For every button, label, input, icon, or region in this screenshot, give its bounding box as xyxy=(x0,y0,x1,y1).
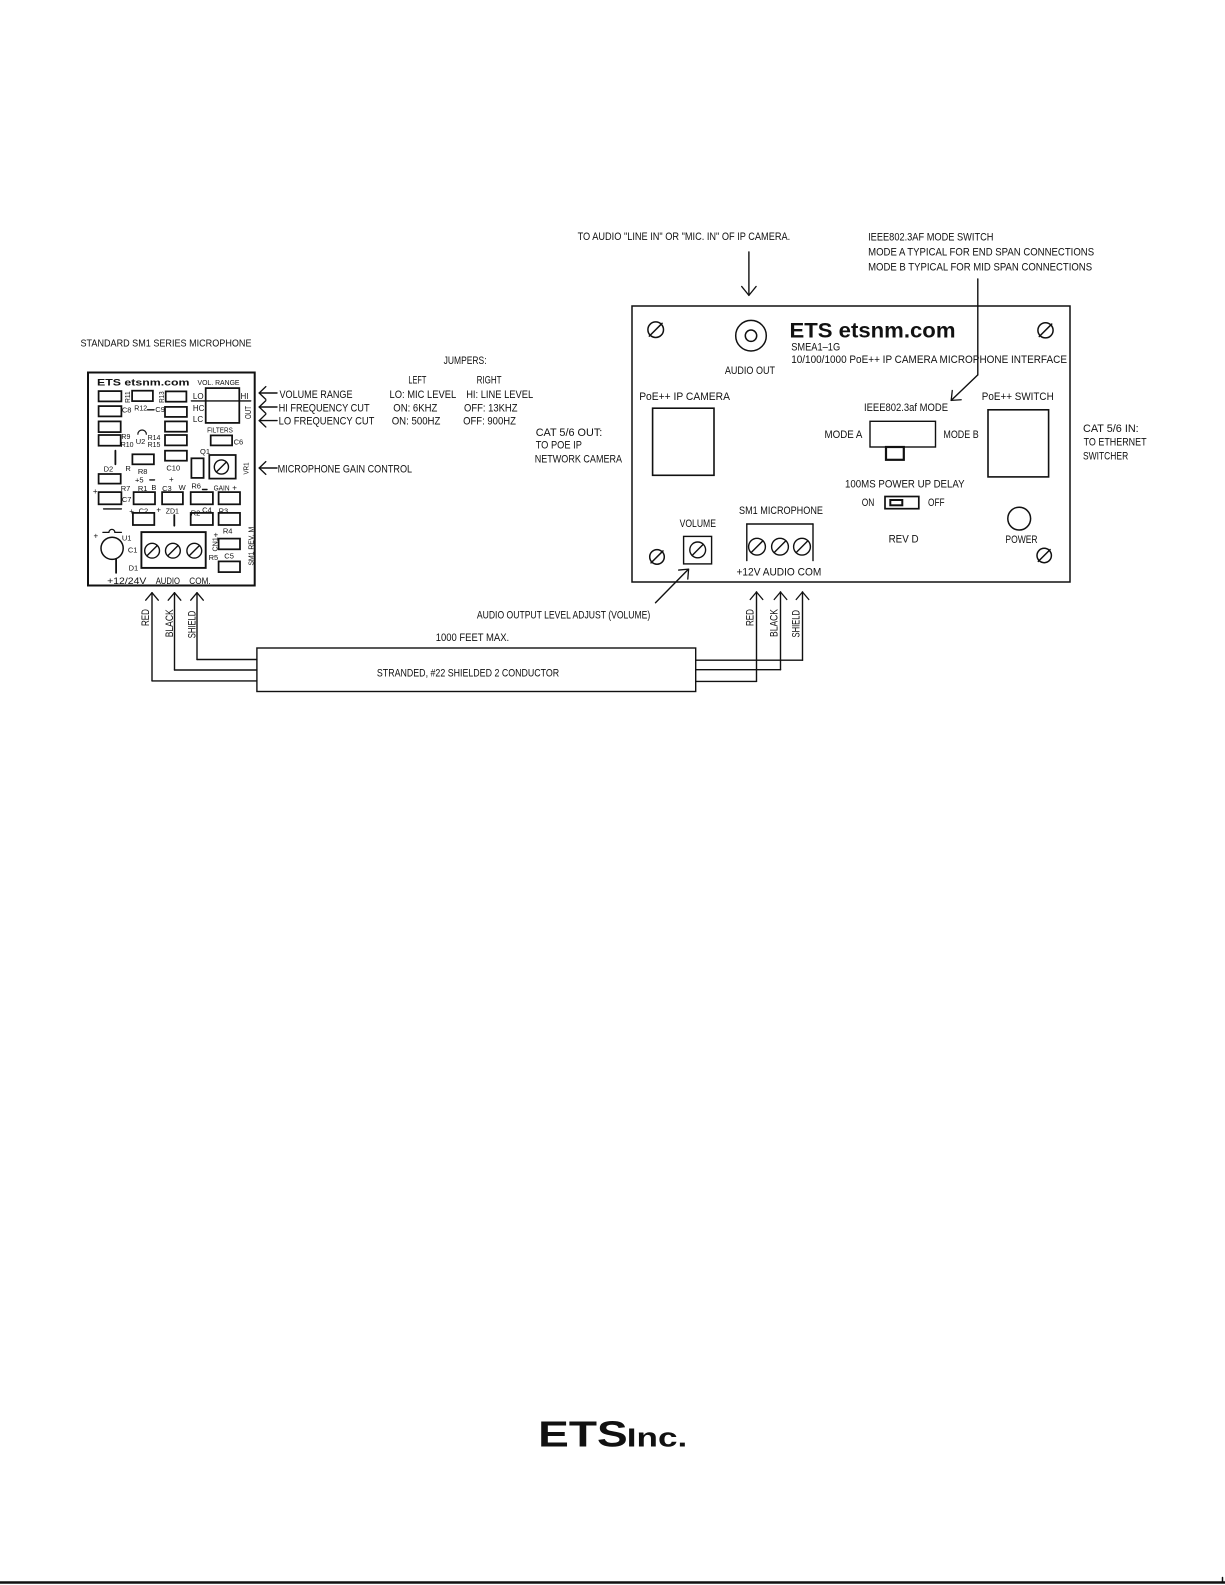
svg-text:ETS etsnm.com: ETS etsnm.com xyxy=(97,378,190,389)
svg-text:POWER: POWER xyxy=(1005,534,1037,546)
svg-text:RED: RED xyxy=(140,609,152,626)
svg-text:AUDIO OUTPUT LEVEL ADJUST (VOL: AUDIO OUTPUT LEVEL ADJUST (VOLUME) xyxy=(477,610,650,622)
svg-text:R9: R9 xyxy=(121,434,130,441)
svg-text:OUT: OUT xyxy=(244,406,253,419)
svg-text:C8: C8 xyxy=(122,406,132,415)
svg-text:TO POE IP: TO POE IP xyxy=(536,440,582,452)
svg-text:HI: LINE LEVEL: HI: LINE LEVEL xyxy=(466,389,533,401)
svg-text:R15: R15 xyxy=(148,442,161,449)
svg-text:MODE A: MODE A xyxy=(825,429,863,441)
svg-text:R5: R5 xyxy=(209,553,219,562)
svg-text:NETWORK CAMERA: NETWORK CAMERA xyxy=(535,454,623,466)
svg-text:RIGHT: RIGHT xyxy=(477,375,502,387)
svg-text:OFF: 13KHZ: OFF: 13KHZ xyxy=(464,402,518,414)
svg-text:REV D: REV D xyxy=(889,533,919,545)
svg-text:C3: C3 xyxy=(162,484,172,493)
svg-text:R: R xyxy=(125,464,131,473)
svg-text:FILTERS: FILTERS xyxy=(207,426,233,435)
svg-text:AUDIO: AUDIO xyxy=(156,576,180,587)
svg-text:C6: C6 xyxy=(234,438,244,447)
svg-text:HI: HI xyxy=(241,392,249,401)
svg-text:100MS POWER UP DELAY: 100MS POWER UP DELAY xyxy=(845,478,965,490)
svg-text:OFF: 900HZ: OFF: 900HZ xyxy=(463,416,516,428)
svg-text:Inc.: Inc. xyxy=(627,1425,688,1453)
svg-text:RED: RED xyxy=(745,609,757,626)
svg-text:ON: 6KHZ: ON: 6KHZ xyxy=(393,402,437,414)
svg-text:HI FREQUENCY CUT: HI FREQUENCY CUT xyxy=(279,402,370,414)
svg-text:BLACK: BLACK xyxy=(769,608,781,637)
svg-text:CAT 5/6 OUT:: CAT 5/6 OUT: xyxy=(536,427,603,439)
svg-text:SMEA1–1G: SMEA1–1G xyxy=(791,342,840,354)
svg-text:ETS etsnm.com: ETS etsnm.com xyxy=(790,320,956,343)
svg-text:+12/24V: +12/24V xyxy=(107,576,147,587)
svg-text:R6: R6 xyxy=(191,481,201,490)
svg-text:VOL. RANGE: VOL. RANGE xyxy=(198,380,240,387)
svg-text:R2: R2 xyxy=(191,509,201,518)
svg-text:LO: LO xyxy=(193,392,204,401)
svg-text:C4: C4 xyxy=(202,506,212,515)
svg-text:R10: R10 xyxy=(121,442,134,449)
svg-text:+12V AUDIO COM: +12V AUDIO COM xyxy=(737,566,822,578)
svg-text:LO FREQUENCY CUT: LO FREQUENCY CUT xyxy=(279,416,375,428)
svg-text:HC: HC xyxy=(193,404,205,413)
svg-text:ON: 500HZ: ON: 500HZ xyxy=(392,416,441,428)
svg-text:SWITCHER: SWITCHER xyxy=(1083,450,1128,462)
svg-text:ETS: ETS xyxy=(538,1413,628,1454)
svg-text:ZD1: ZD1 xyxy=(166,509,179,516)
svg-text:D1: D1 xyxy=(129,564,139,573)
svg-text:C2: C2 xyxy=(139,507,149,516)
svg-text:MICROPHONE GAIN CONTROL: MICROPHONE GAIN CONTROL xyxy=(278,463,413,475)
svg-text:OFF: OFF xyxy=(928,497,945,509)
svg-text:LC: LC xyxy=(193,415,203,424)
svg-text:MODE B TYPICAL FOR MID SPAN CO: MODE B TYPICAL FOR MID SPAN CONNECTIONS xyxy=(868,262,1092,274)
svg-text:+: + xyxy=(129,507,134,516)
svg-text:STANDARD SM1 SERIES MICROPHONE: STANDARD SM1 SERIES MICROPHONE xyxy=(81,338,252,350)
svg-text:W: W xyxy=(179,483,187,492)
svg-text:B: B xyxy=(151,483,156,492)
svg-text:1000 FEET MAX.: 1000 FEET MAX. xyxy=(436,632,510,644)
svg-text:LO: MIC LEVEL: LO: MIC LEVEL xyxy=(390,389,457,401)
svg-text:R4: R4 xyxy=(223,526,233,535)
svg-text:U1: U1 xyxy=(122,534,132,543)
svg-text:CAT 5/6 IN:: CAT 5/6 IN: xyxy=(1083,423,1139,435)
svg-text:VOLUME RANGE: VOLUME RANGE xyxy=(280,389,353,401)
svg-text:GAIN: GAIN xyxy=(214,483,230,492)
svg-text:AUDIO OUT: AUDIO OUT xyxy=(725,365,775,377)
svg-text:SHIELD: SHIELD xyxy=(187,611,199,639)
svg-text:C10: C10 xyxy=(166,464,180,473)
svg-text:MODE B: MODE B xyxy=(943,429,978,441)
svg-text:+: + xyxy=(94,531,99,540)
svg-text:+: + xyxy=(93,487,98,496)
svg-text:ON: ON xyxy=(862,497,875,509)
svg-text:JUMPERS:: JUMPERS: xyxy=(444,355,487,367)
svg-text:SM1 REV. M: SM1 REV. M xyxy=(246,527,255,566)
svg-text:SHIELD: SHIELD xyxy=(791,610,803,638)
svg-text:R3: R3 xyxy=(219,506,229,515)
svg-text:TO AUDIO "LINE IN" OR "MIC. IN: TO AUDIO "LINE IN" OR "MIC. IN" OF IP CA… xyxy=(578,231,791,243)
svg-text:R12: R12 xyxy=(134,406,147,413)
svg-text:PoE++ IP CAMERA: PoE++ IP CAMERA xyxy=(639,391,730,403)
svg-text:U2: U2 xyxy=(136,437,146,446)
svg-text:R8: R8 xyxy=(138,467,148,476)
svg-text:VOLUME: VOLUME xyxy=(680,518,716,530)
svg-text:C9: C9 xyxy=(155,405,165,414)
svg-text:MODE A TYPICAL FOR END SPAN CO: MODE A TYPICAL FOR END SPAN CONNECTIONS xyxy=(868,247,1094,259)
svg-text:R13: R13 xyxy=(159,391,166,403)
svg-text:D2: D2 xyxy=(104,465,114,474)
svg-text:+: + xyxy=(214,531,219,540)
svg-text:SM1 MICROPHONE: SM1 MICROPHONE xyxy=(739,505,823,517)
svg-text:+: + xyxy=(232,483,237,492)
svg-text:Q1: Q1 xyxy=(200,447,210,456)
svg-text:C1: C1 xyxy=(128,546,138,555)
svg-text:COM.: COM. xyxy=(189,576,210,587)
svg-text:VR1: VR1 xyxy=(242,463,251,475)
svg-text:R1: R1 xyxy=(138,484,148,493)
svg-text:PoE++ SWITCH: PoE++ SWITCH xyxy=(982,391,1054,403)
svg-text:IEEE802.3af MODE: IEEE802.3af MODE xyxy=(864,402,948,414)
svg-text:R11: R11 xyxy=(125,391,132,403)
svg-text:+: + xyxy=(156,506,161,515)
svg-text:+: + xyxy=(169,475,174,484)
svg-text:C5: C5 xyxy=(224,551,234,560)
svg-text:STRANDED, #22 SHIELDED 2 CONDU: STRANDED, #22 SHIELDED 2 CONDUCTOR xyxy=(377,667,559,679)
svg-text:TO ETHERNET: TO ETHERNET xyxy=(1084,436,1147,448)
svg-text:LEFT: LEFT xyxy=(408,375,426,387)
svg-text:R7: R7 xyxy=(121,484,131,493)
svg-text:IEEE802.3AF MODE SWITCH: IEEE802.3AF MODE SWITCH xyxy=(868,232,993,244)
svg-text:BLACK: BLACK xyxy=(164,609,176,638)
svg-text:10/100/1000 PoE++ IP CAMERA MI: 10/100/1000 PoE++ IP CAMERA MICROPHONE I… xyxy=(791,354,1067,366)
svg-text:C7: C7 xyxy=(122,495,132,504)
